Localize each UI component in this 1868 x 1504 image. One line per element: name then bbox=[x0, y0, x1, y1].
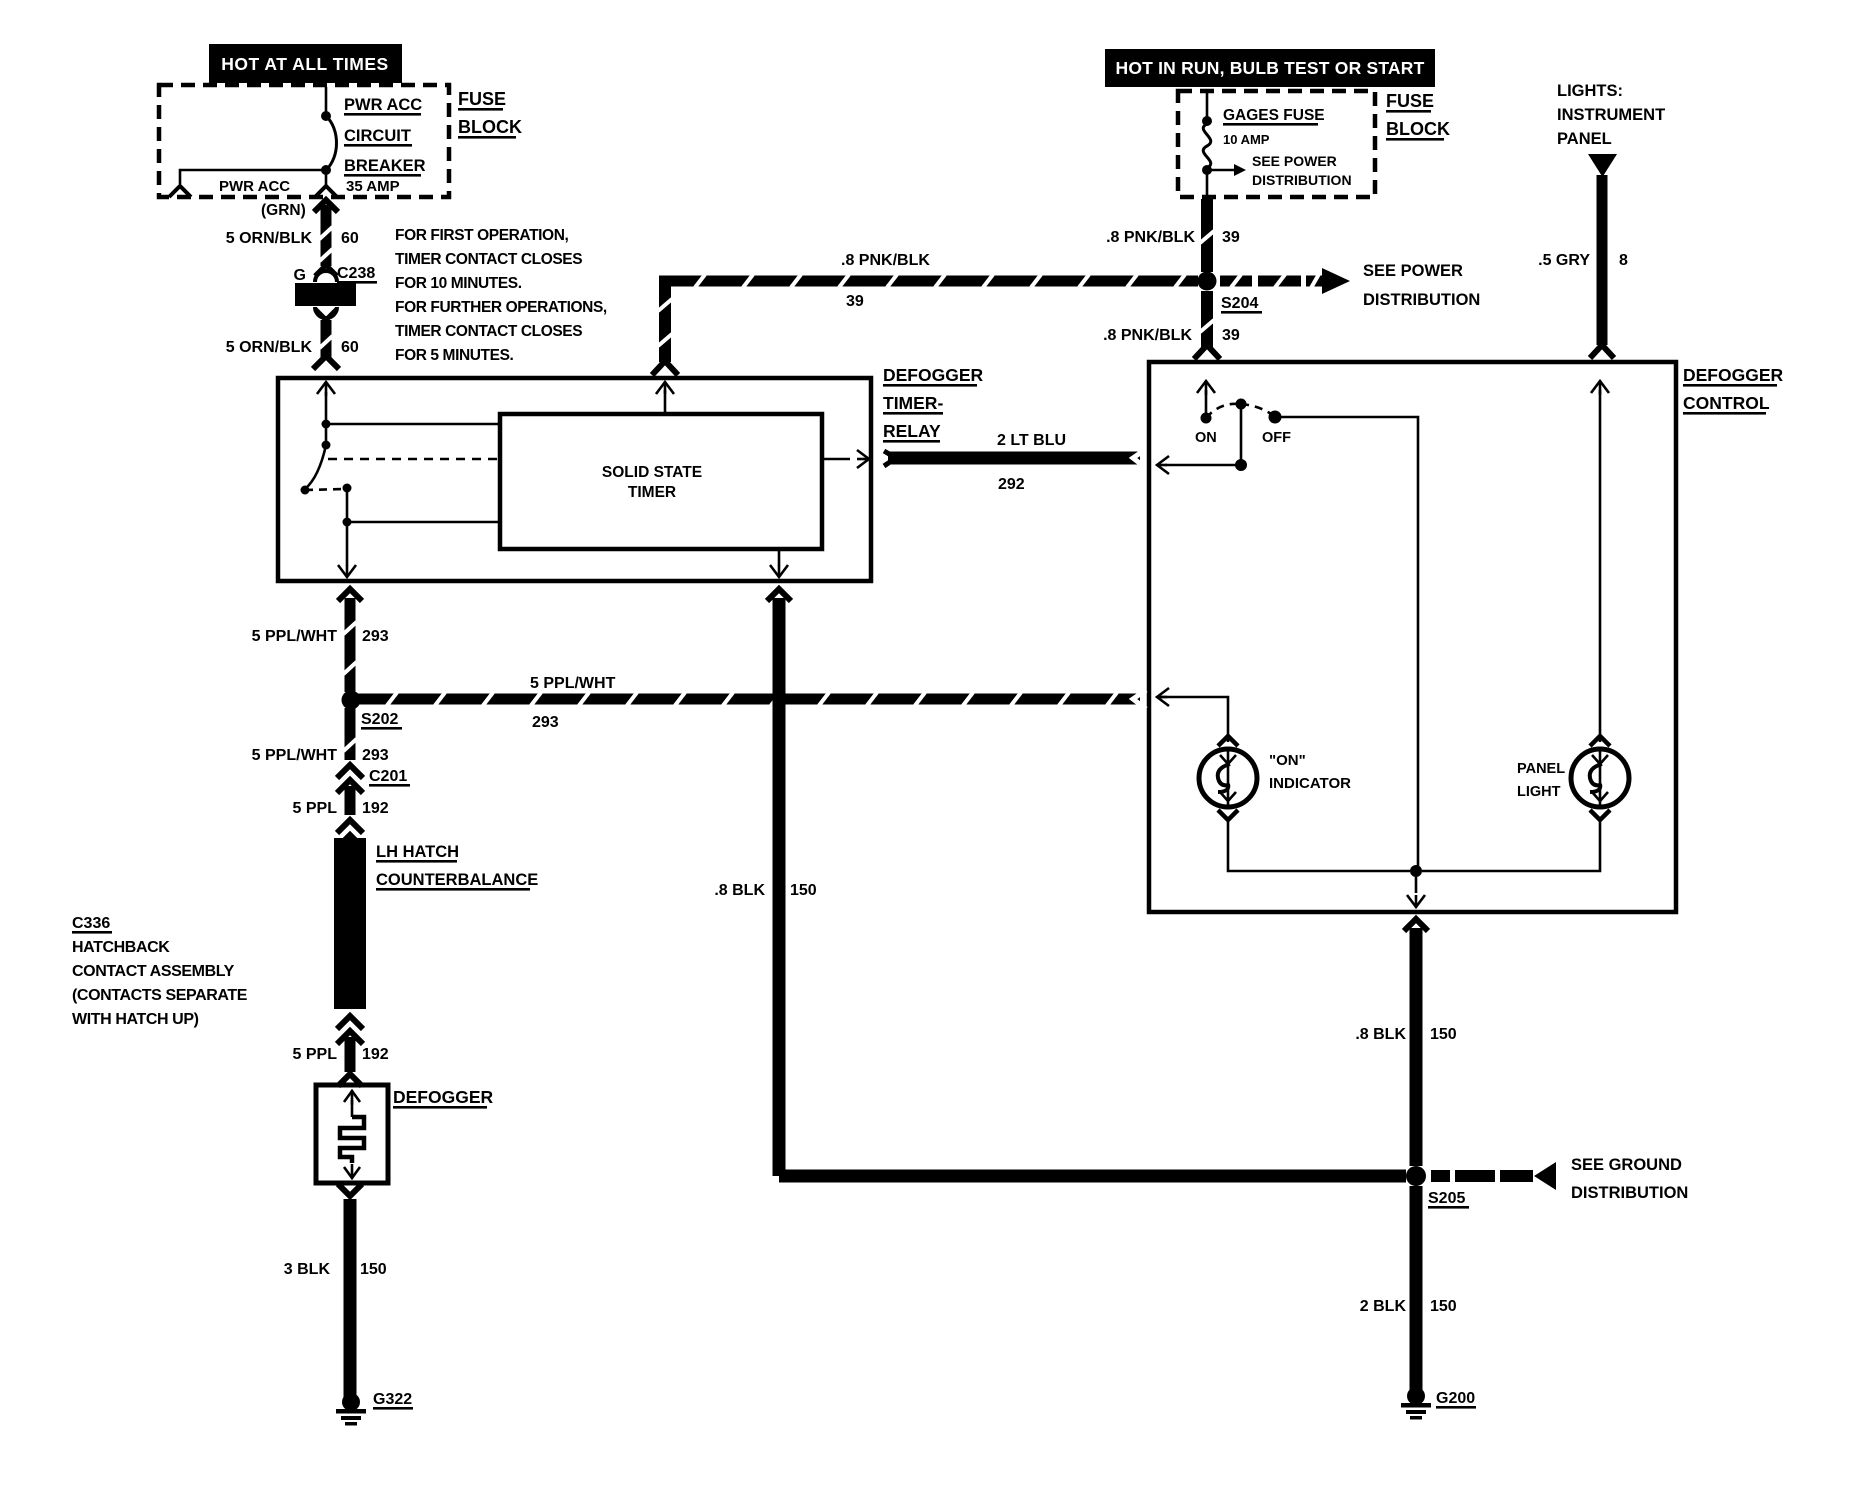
label S205 bbox=[1428, 1190, 1469, 1209]
wire 5 PPL/WHT 293 to C201 bbox=[344, 708, 357, 760]
wire to panel light bbox=[1599, 390, 1602, 742]
label 293 (lower) bbox=[362, 747, 389, 764]
label 150 (2 BLK) bbox=[1430, 1298, 1457, 1315]
svg-text:LH HATCH: LH HATCH bbox=[376, 843, 459, 861]
svg-text:PANEL: PANEL bbox=[1517, 761, 1565, 777]
svg-text:293: 293 bbox=[362, 628, 389, 645]
label DEFOGGER bbox=[393, 1087, 494, 1109]
label DEFOGGER CONTROL bbox=[1683, 365, 1784, 415]
wire 5 ORN/BLK 60 lower segment bbox=[313, 320, 339, 369]
svg-text:SEE POWER: SEE POWER bbox=[1252, 153, 1337, 169]
label LH HATCH COUNTERBALANCE bbox=[376, 843, 538, 891]
svg-text:5 PPL/WHT: 5 PPL/WHT bbox=[252, 628, 338, 645]
switch pivot bbox=[1236, 399, 1247, 410]
wire 2 LT BLU 292 bbox=[884, 449, 1146, 468]
svg-text:LIGHT: LIGHT bbox=[1517, 784, 1561, 800]
svg-text:HATCHBACK: HATCHBACK bbox=[72, 939, 170, 956]
defogger timer relay enclosure bbox=[278, 378, 871, 581]
svg-text:FUSE: FUSE bbox=[458, 89, 506, 109]
fuse block (left) dashed enclosure bbox=[159, 85, 449, 197]
svg-text:CONTACT ASSEMBLY: CONTACT ASSEMBLY bbox=[72, 963, 235, 980]
svg-text:5 ORN/BLK: 5 ORN/BLK bbox=[226, 339, 313, 356]
control pin arrow from 5 PPL/WHT bbox=[1157, 688, 1169, 706]
node relay feed upper bbox=[322, 420, 331, 429]
label (GRN) bbox=[261, 202, 306, 219]
wire fuse to block bottom bbox=[1206, 170, 1209, 199]
branch arrow see power distribution (inside fuse block) bbox=[1207, 164, 1246, 176]
wire 2 BLK 150 bbox=[1410, 1186, 1423, 1392]
svg-text:S204: S204 bbox=[1221, 295, 1258, 312]
solid state timer box bbox=[500, 414, 822, 549]
label PANEL LIGHT bbox=[1517, 761, 1565, 800]
wire dashed to see power distribution bbox=[1220, 275, 1301, 288]
label 60 (lower) bbox=[341, 339, 359, 356]
label PWR ACC CIRCUIT BREAKER bbox=[344, 96, 426, 177]
wire .8 PNK/BLK 39 below S204 bbox=[1194, 291, 1220, 359]
svg-text:WITH HATCH UP): WITH HATCH UP) bbox=[72, 1011, 199, 1028]
label SEE POWER DISTRIBUTION (S204) bbox=[1363, 262, 1480, 309]
svg-text:FOR 5 MINUTES.: FOR 5 MINUTES. bbox=[395, 347, 514, 364]
svg-text:FOR FURTHER OPERATIONS,: FOR FURTHER OPERATIONS, bbox=[395, 299, 607, 316]
svg-text:2 LT BLU: 2 LT BLU bbox=[997, 432, 1066, 449]
svg-text:FOR FIRST OPERATION,: FOR FIRST OPERATION, bbox=[395, 227, 568, 244]
relay contact blade (movable) bbox=[301, 445, 327, 495]
wire node to solid state timer bbox=[326, 423, 500, 426]
svg-text:60: 60 bbox=[341, 339, 359, 356]
terminal at fuse block bottom (right) bbox=[315, 186, 337, 197]
svg-text:G200: G200 bbox=[1436, 1390, 1475, 1407]
svg-text:BREAKER: BREAKER bbox=[344, 157, 426, 175]
svg-text:35 AMP: 35 AMP bbox=[346, 178, 400, 195]
label C201 bbox=[369, 768, 410, 787]
label 5 ORN/BLK (upper) bbox=[226, 230, 313, 247]
switch blade dashed (ON side) bbox=[1206, 404, 1240, 418]
lamp PANEL LIGHT bbox=[1571, 736, 1629, 820]
svg-text:C336: C336 bbox=[72, 915, 110, 932]
label SEE GROUND DISTRIBUTION bbox=[1571, 1156, 1688, 1202]
svg-text:150: 150 bbox=[1430, 1298, 1457, 1315]
label 2 BLK bbox=[1360, 1298, 1407, 1315]
arrow see ground distribution bbox=[1534, 1162, 1556, 1190]
power feed label HOT IN RUN BULB TEST OR START bbox=[1105, 49, 1435, 87]
wire node to solid state timer lower bbox=[347, 521, 500, 524]
wire 5 PPL/WHT 293 from timer relay bbox=[338, 589, 362, 692]
svg-text:293: 293 bbox=[532, 714, 559, 731]
svg-text:150: 150 bbox=[360, 1261, 387, 1278]
label FUSE BLOCK (right) bbox=[1386, 91, 1450, 141]
label 60 (upper) bbox=[341, 230, 359, 247]
svg-text:PANEL: PANEL bbox=[1557, 130, 1612, 148]
wire 5 PPL/WHT 293 horizontal to control bbox=[355, 690, 1146, 709]
control pin arrow from S204 feed bbox=[1197, 381, 1215, 395]
label 8 bbox=[1619, 252, 1628, 269]
svg-text:BLOCK: BLOCK bbox=[458, 117, 522, 137]
svg-text:CIRCUIT: CIRCUIT bbox=[344, 127, 411, 145]
splice S205 bbox=[1406, 1166, 1426, 1186]
svg-text:G322: G322 bbox=[373, 1391, 412, 1408]
svg-text:.5 GRY: .5 GRY bbox=[1538, 252, 1590, 269]
svg-text:DEFOGGER: DEFOGGER bbox=[883, 365, 984, 385]
node relay output upper bbox=[343, 484, 352, 493]
label C238 bbox=[337, 265, 377, 284]
svg-text:10 AMP: 10 AMP bbox=[1223, 132, 1270, 147]
wire relay output bbox=[346, 488, 349, 566]
wire .8 PNK/BLK 39 above S204 bbox=[1200, 199, 1214, 272]
defogger control enclosure bbox=[1149, 362, 1676, 912]
ground G322 bbox=[336, 1393, 366, 1426]
label G bbox=[294, 267, 306, 284]
label 192 (upper) bbox=[362, 800, 389, 817]
label S202 bbox=[361, 711, 402, 730]
svg-text:INDICATOR: INDICATOR bbox=[1269, 775, 1351, 792]
label 293 (horizontal) bbox=[532, 714, 559, 731]
svg-text:60: 60 bbox=[341, 230, 359, 247]
svg-text:5 PPL: 5 PPL bbox=[293, 800, 338, 817]
wire .8 BLK 150 from timer relay to S205 bbox=[767, 589, 1406, 1183]
svg-text:.8 BLK: .8 BLK bbox=[1355, 1026, 1406, 1043]
label 2 LT BLU bbox=[997, 432, 1066, 449]
wire breaker to PWR ACC terminal bbox=[180, 170, 326, 184]
label GAGES FUSE bbox=[1223, 107, 1325, 126]
svg-text:DEFOGGER: DEFOGGER bbox=[1683, 365, 1784, 385]
switch ON contact bbox=[1201, 413, 1212, 424]
label 39 (horizontal) bbox=[846, 293, 864, 310]
svg-text:"ON": "ON" bbox=[1269, 752, 1306, 769]
svg-text:(CONTACTS SEPARATE: (CONTACTS SEPARATE bbox=[72, 987, 248, 1004]
wire .8 PNK/BLK 39 horizontal to timer relay bbox=[659, 275, 1198, 288]
relay pin arrow from 5 ORN/BLK feed bbox=[317, 382, 335, 396]
feed triangle from lights circuit bbox=[1588, 154, 1617, 177]
label DEFOGGER TIMER-RELAY bbox=[883, 365, 984, 443]
label .5 GRY bbox=[1538, 252, 1590, 269]
label 39 (above S204) bbox=[1222, 229, 1240, 246]
svg-text:FUSE: FUSE bbox=[1386, 91, 1434, 111]
label 292 bbox=[998, 476, 1025, 493]
svg-text:SEE GROUND: SEE GROUND bbox=[1571, 1156, 1682, 1174]
wire .5 GRY 8 bbox=[1590, 175, 1614, 358]
label 5 PPL/WHT (upper) bbox=[252, 628, 338, 645]
svg-text:292: 292 bbox=[998, 476, 1025, 493]
circuit breaker PWR ACC 35 AMP bbox=[321, 111, 337, 175]
timer pin arrow from PNK/BLK feed bbox=[656, 382, 674, 414]
svg-text:LIGHTS:: LIGHTS: bbox=[1557, 82, 1623, 100]
label 3 BLK bbox=[284, 1261, 331, 1278]
label 35 AMP bbox=[346, 178, 400, 195]
svg-text:8: 8 bbox=[1619, 252, 1628, 269]
svg-text:TIMER-: TIMER- bbox=[883, 393, 943, 413]
svg-text:DISTRIBUTION: DISTRIBUTION bbox=[1363, 291, 1480, 309]
wire panel light to ground bus bbox=[1422, 820, 1600, 871]
relay pin arrow to defogger output bbox=[338, 565, 356, 577]
dashed wire to ground distribution bbox=[1431, 1170, 1533, 1182]
svg-text:5 PPL/WHT: 5 PPL/WHT bbox=[252, 747, 338, 764]
svg-text:5 ORN/BLK: 5 ORN/BLK bbox=[226, 230, 313, 247]
wire from top to circuit breaker bbox=[325, 87, 328, 113]
svg-text:HOT AT ALL TIMES: HOT AT ALL TIMES bbox=[221, 54, 388, 74]
svg-text:C238: C238 bbox=[337, 265, 375, 282]
svg-text:OFF: OFF bbox=[1262, 430, 1291, 446]
label G322 bbox=[373, 1391, 413, 1410]
svg-text:TIMER: TIMER bbox=[628, 484, 676, 501]
label 150 (left) bbox=[790, 882, 817, 899]
svg-text:.8 PNK/BLK: .8 PNK/BLK bbox=[841, 252, 930, 269]
label C336 HATCHBACK CONTACT ASSEMBLY bbox=[72, 915, 248, 1028]
svg-text:5 PPL: 5 PPL bbox=[293, 1046, 338, 1063]
wire 5 ORN/BLK 60 upper segment bbox=[314, 200, 338, 266]
svg-text:INSTRUMENT: INSTRUMENT bbox=[1557, 106, 1665, 124]
svg-text:CONTROL: CONTROL bbox=[1683, 393, 1770, 413]
connector C336 top bbox=[337, 820, 363, 848]
svg-text:DISTRIBUTION: DISTRIBUTION bbox=[1571, 1184, 1688, 1202]
defogger heater element bbox=[340, 1091, 364, 1178]
svg-text:39: 39 bbox=[1222, 229, 1240, 246]
connector C201 bbox=[337, 765, 363, 793]
label SEE POWER DISTRIBUTION (fuse block) bbox=[1252, 153, 1352, 188]
label .8 BLK (right) bbox=[1355, 1026, 1406, 1043]
label 5 PPL (upper) bbox=[293, 800, 338, 817]
node control ground junction bbox=[1410, 865, 1422, 877]
label 192 (lower) bbox=[362, 1046, 389, 1063]
label .8 PNK/BLK (above S204) bbox=[1106, 229, 1195, 246]
svg-text:39: 39 bbox=[1222, 327, 1240, 344]
label ON bbox=[1195, 430, 1217, 446]
note timer operation bbox=[395, 227, 607, 364]
svg-text:.8 PNK/BLK: .8 PNK/BLK bbox=[1106, 229, 1195, 246]
wire breaker to fuse block bottom bbox=[325, 170, 328, 187]
label LIGHTS: INSTRUMENT PANEL bbox=[1557, 82, 1665, 148]
label G200 bbox=[1436, 1390, 1476, 1409]
label FUSE BLOCK (left) bbox=[458, 89, 522, 139]
splice S204 bbox=[1198, 272, 1217, 291]
svg-text:150: 150 bbox=[790, 882, 817, 899]
node relay output lower bbox=[343, 518, 352, 527]
svg-text:293: 293 bbox=[362, 747, 389, 764]
svg-text:RELAY: RELAY bbox=[883, 421, 941, 441]
splice S202 bbox=[342, 691, 361, 710]
svg-text:192: 192 bbox=[362, 1046, 389, 1063]
wire switch output to 2 LT BLU pin bbox=[1157, 456, 1241, 474]
switch OFF contact bbox=[1269, 411, 1282, 424]
svg-text:TIMER CONTACT CLOSES: TIMER CONTACT CLOSES bbox=[395, 323, 582, 340]
svg-text:(GRN): (GRN) bbox=[261, 202, 306, 219]
wire feed to switch bbox=[1205, 390, 1208, 418]
relay control dashed link to timer bbox=[328, 458, 500, 461]
dashed blade link bbox=[305, 489, 345, 490]
node switch output bbox=[1235, 459, 1247, 471]
lamp "ON" indicator bbox=[1199, 736, 1257, 820]
svg-text:SEE POWER: SEE POWER bbox=[1363, 262, 1463, 280]
label .8 PNK/BLK (horizontal) bbox=[841, 252, 930, 269]
label 5 PPL/WHT (horizontal) bbox=[530, 675, 616, 692]
defogger enclosure bbox=[316, 1085, 388, 1183]
svg-text:192: 192 bbox=[362, 800, 389, 817]
label PWR ACC terminal bbox=[219, 178, 290, 195]
power feed label HOT AT ALL TIMES bbox=[209, 44, 402, 83]
svg-text:PWR ACC: PWR ACC bbox=[219, 178, 290, 195]
label OFF bbox=[1262, 430, 1291, 446]
svg-text:HOT IN RUN, BULB TEST OR STAR: HOT IN RUN, BULB TEST OR START bbox=[1116, 58, 1425, 78]
wire feed to relay contact bbox=[325, 392, 328, 445]
wire 5 PPL 192 upper bbox=[345, 786, 356, 815]
connector C336 bottom bbox=[337, 1016, 363, 1044]
wire to ON indicator bbox=[1157, 697, 1228, 742]
label .8 PNK/BLK (below S204) bbox=[1103, 327, 1192, 344]
svg-text:G: G bbox=[294, 267, 306, 284]
fuse GAGES FUSE 10 AMP bbox=[1202, 116, 1212, 175]
fuse block (right) dashed enclosure bbox=[1178, 91, 1375, 197]
svg-text:S205: S205 bbox=[1428, 1190, 1465, 1207]
svg-text:150: 150 bbox=[1430, 1026, 1457, 1043]
node relay feed lower bbox=[322, 441, 331, 450]
svg-text:3 BLK: 3 BLK bbox=[284, 1261, 331, 1278]
svg-text:PWR ACC: PWR ACC bbox=[344, 96, 422, 114]
wire 3 BLK 150 bbox=[344, 1199, 357, 1398]
label 293 (upper) bbox=[362, 628, 389, 645]
svg-text:39: 39 bbox=[846, 293, 864, 310]
svg-text:BLOCK: BLOCK bbox=[1386, 119, 1450, 139]
label "ON" INDICATOR bbox=[1269, 752, 1351, 792]
svg-text:S202: S202 bbox=[361, 711, 398, 728]
control pin arrow from .5 GRY bbox=[1591, 381, 1609, 395]
terminal at fuse block bottom (left) bbox=[169, 186, 191, 197]
label .8 BLK (left) bbox=[714, 882, 765, 899]
label 5 PPL/WHT (lower) bbox=[252, 747, 338, 764]
label 39 (below S204) bbox=[1222, 327, 1240, 344]
svg-text:ON: ON bbox=[1195, 430, 1217, 446]
wire .8 BLK 150 from control to S205 bbox=[1404, 919, 1428, 1166]
svg-text:DISTRIBUTION: DISTRIBUTION bbox=[1252, 172, 1352, 188]
svg-text:2 BLK: 2 BLK bbox=[1360, 1298, 1407, 1315]
svg-text:5 PPL/WHT: 5 PPL/WHT bbox=[530, 675, 616, 692]
svg-text:COUNTERBALANCE: COUNTERBALANCE bbox=[376, 871, 538, 889]
wire pivot to output node bbox=[1240, 404, 1243, 465]
label S204 bbox=[1221, 295, 1262, 314]
label 5 ORN/BLK (lower) bbox=[226, 339, 313, 356]
label 150 (right) bbox=[1430, 1026, 1457, 1043]
terminal below defogger bbox=[338, 1184, 362, 1196]
LH hatch counterbalance (resistive element) bbox=[334, 838, 366, 1009]
label 10 AMP bbox=[1223, 132, 1270, 147]
svg-text:C201: C201 bbox=[369, 768, 407, 785]
label 150 (3 BLK) bbox=[360, 1261, 387, 1278]
wire OFF contact to panel bus bbox=[1275, 417, 1418, 868]
timer pin arrow to control (2 LT BLU) bbox=[822, 450, 869, 468]
timer pin arrow to ground wire bbox=[770, 549, 788, 577]
svg-text:.8 BLK: .8 BLK bbox=[714, 882, 765, 899]
wire 5 PPL 192 lower bbox=[345, 1037, 356, 1072]
svg-text:SOLID STATE: SOLID STATE bbox=[602, 464, 702, 481]
svg-text:DEFOGGER: DEFOGGER bbox=[393, 1087, 494, 1107]
label SOLID STATE TIMER bbox=[602, 464, 702, 501]
svg-text:FOR 10 MINUTES.: FOR 10 MINUTES. bbox=[395, 275, 522, 292]
terminal into defogger bbox=[338, 1074, 362, 1086]
wire elbow down to timer relay bbox=[652, 281, 678, 375]
svg-text:.8 PNK/BLK: .8 PNK/BLK bbox=[1103, 327, 1192, 344]
ground G200 bbox=[1401, 1387, 1431, 1420]
switch blade dashed (OFF side) bbox=[1241, 404, 1275, 417]
wire ON indicator to ground bus bbox=[1228, 820, 1410, 871]
label 5 PPL (lower) bbox=[293, 1046, 338, 1063]
connector C238 bbox=[295, 265, 356, 320]
wire into gages fuse bbox=[1206, 93, 1209, 118]
control pin arrow to ground wire bbox=[1407, 871, 1425, 907]
svg-text:TIMER CONTACT CLOSES: TIMER CONTACT CLOSES bbox=[395, 251, 582, 268]
arrow see power distribution bbox=[1306, 268, 1350, 294]
svg-text:GAGES FUSE: GAGES FUSE bbox=[1223, 107, 1325, 124]
